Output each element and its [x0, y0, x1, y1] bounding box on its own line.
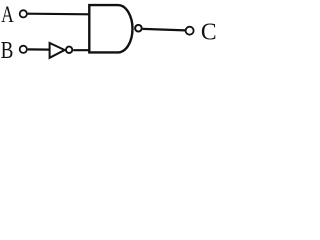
terminal A — [20, 10, 27, 17]
wire NAND output to terminal C — [143, 29, 186, 31]
wire B to inverter input — [28, 48, 50, 50]
svg-text:B: B — [1, 36, 14, 64]
terminal B — [20, 46, 27, 53]
svg-text:C: C — [201, 19, 217, 46]
inverter U1 (NOT gate triangle) — [50, 43, 65, 58]
terminal C — [186, 27, 194, 35]
svg-text:A: A — [1, 3, 14, 28]
inverter output bubble — [66, 47, 72, 53]
NAND output bubble — [135, 25, 142, 32]
wire inverter output to NAND input — [73, 49, 90, 51]
wire A to NAND input — [28, 13, 90, 16]
NAND gate U2 (AND body) — [89, 5, 132, 52]
